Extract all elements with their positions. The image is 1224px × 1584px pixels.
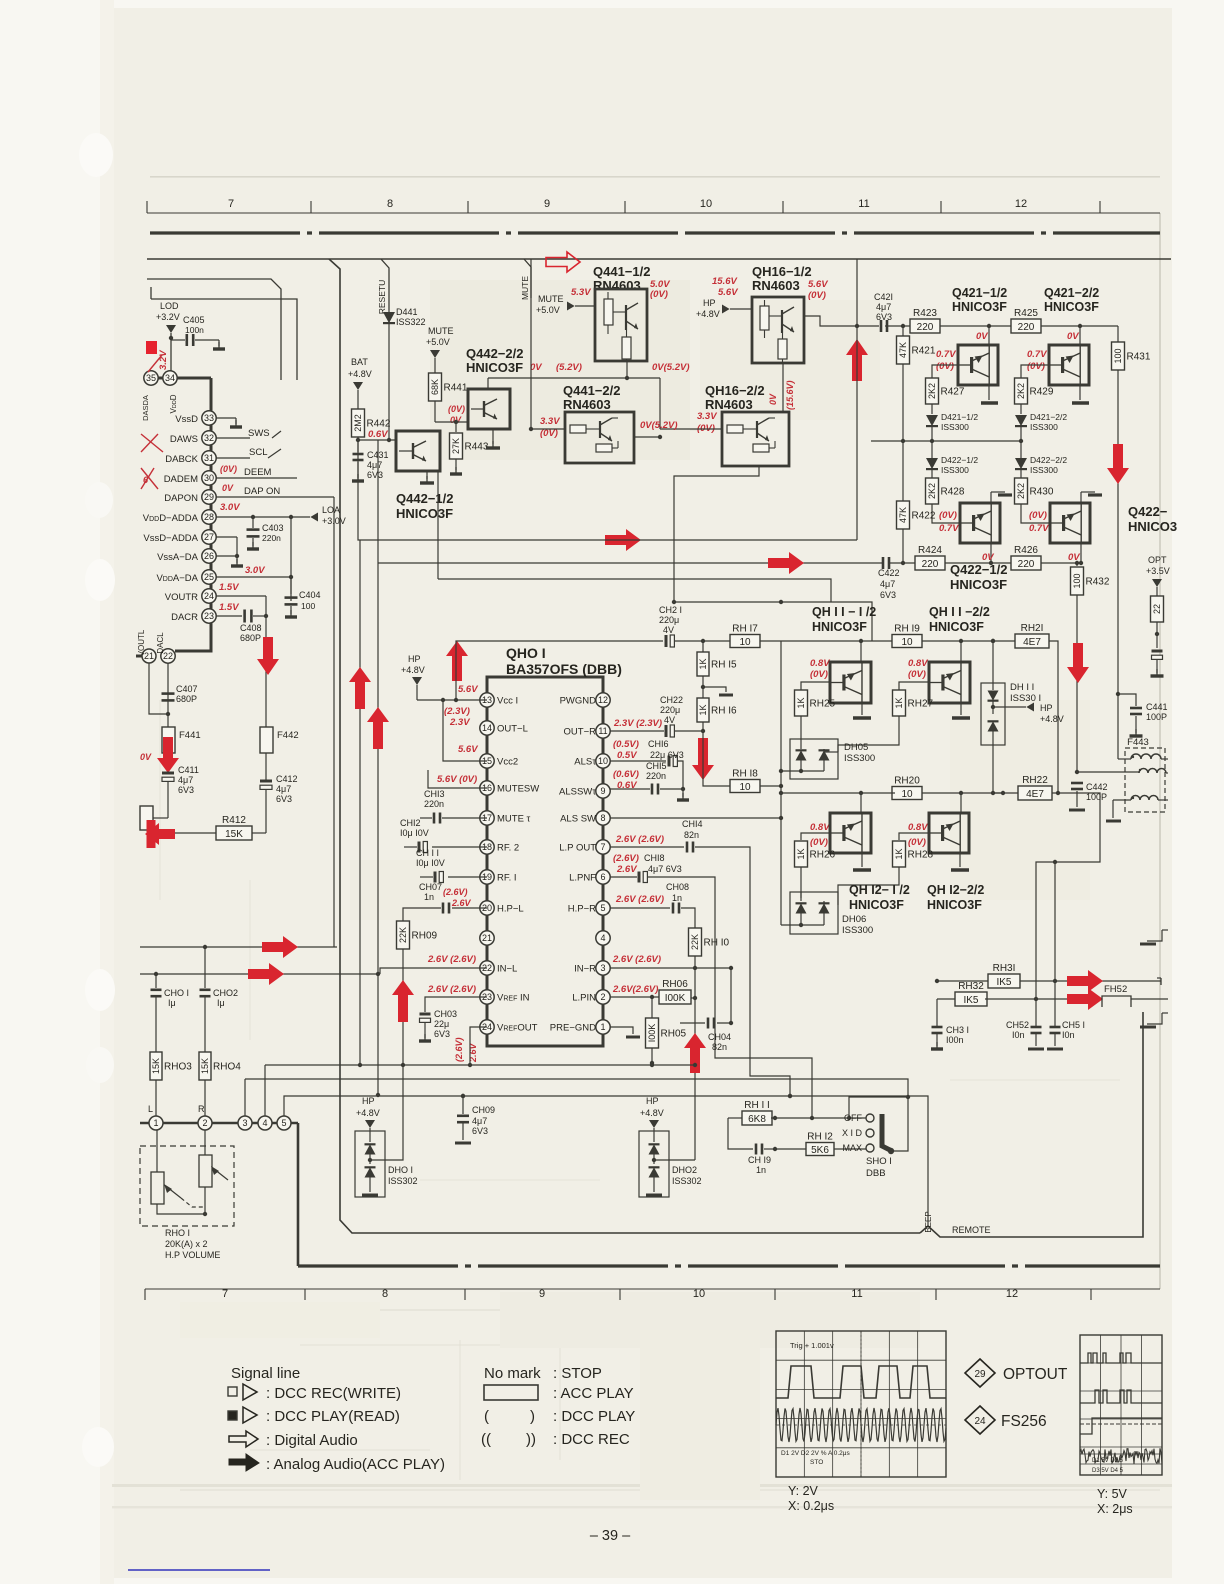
pin 27 VssD-ADDA <box>143 530 237 556</box>
wire RESETU vertical <box>381 259 389 310</box>
svg-text:IK5: IK5 <box>996 977 1011 988</box>
svg-text:+4.8V: +4.8V <box>356 1108 380 1118</box>
resistor R427 2K2 <box>926 378 965 414</box>
resistor RH06 100K <box>659 979 695 1004</box>
label Y 2V X 0.2us <box>788 1484 834 1513</box>
wire right border stub <box>1157 978 1161 985</box>
resistor R422 47K <box>897 441 936 565</box>
ground Q442-2/2 <box>486 430 500 448</box>
outline around DAC left upper <box>147 279 281 380</box>
svg-text:RH2I: RH2I <box>1021 623 1044 634</box>
legend row4 Analog Audio <box>229 1454 445 1473</box>
svg-text:I00K: I00K <box>665 993 686 1004</box>
vertical wire x360 <box>359 540 361 1065</box>
svg-text:RH25: RH25 <box>810 699 836 710</box>
capacitor C403 <box>247 517 284 549</box>
red (15.6V) rotated <box>785 380 795 410</box>
wire RH11-CH19 left <box>728 1118 753 1149</box>
svg-text:CH04: CH04 <box>708 1032 731 1042</box>
ground stub Q422-2 <box>1081 492 1102 495</box>
svg-text:CHI2: CHI2 <box>400 818 421 828</box>
punch hole bottom <box>82 1427 114 1467</box>
capacitor CH01 <box>151 974 190 1052</box>
ground stub RH15 <box>703 687 733 695</box>
svg-text:(5.2V): (5.2V) <box>556 362 582 373</box>
svg-text:VssD−ADDA: VssD−ADDA <box>143 533 198 544</box>
svg-text:220n: 220n <box>262 533 281 543</box>
wire Q442-2/2 collector line <box>488 376 629 389</box>
resistor R425 220 <box>1011 308 1041 333</box>
svg-text:15K: 15K <box>225 829 243 840</box>
transistor Q441-1/2 <box>595 289 647 361</box>
red 1.5V pin23 <box>219 602 239 613</box>
svg-text:220: 220 <box>917 322 934 333</box>
bottom dash-dot border <box>298 1264 1160 1267</box>
red arrow out R <box>1067 970 1103 992</box>
sheet right margin line <box>1159 213 1161 1289</box>
red (0V) 0.7V Q422-1 <box>939 510 959 534</box>
svg-text:RH I2: RH I2 <box>807 1132 833 1143</box>
svg-text:4: 4 <box>262 1118 267 1128</box>
transistor QH16-1/2 <box>752 297 879 363</box>
capacitor CH03 <box>419 1009 457 1041</box>
svg-text:RH28: RH28 <box>908 850 934 861</box>
svg-text:F441: F441 <box>179 730 201 741</box>
wire MUTESW stub <box>428 770 487 788</box>
svg-text:5: 5 <box>281 1118 286 1128</box>
svg-text:HNICO3F: HNICO3F <box>952 300 1007 314</box>
wire QH16-2/2 down to bus <box>674 466 759 602</box>
red 5.3V <box>571 287 591 298</box>
svg-text:RH06: RH06 <box>662 979 688 990</box>
svg-text:H.P−L: H.P−L <box>497 904 524 915</box>
svg-text:IN−R: IN−R <box>574 964 596 975</box>
svg-text:OUT−L: OUT−L <box>497 724 528 735</box>
svg-text:ISS300: ISS300 <box>1030 465 1058 475</box>
legend DCC PLAY parens <box>484 1408 635 1425</box>
svg-text:RF. I: RF. I <box>497 873 517 884</box>
svg-text:D422−1/2: D422−1/2 <box>941 455 978 465</box>
svg-text:X: 2μs: X: 2μs <box>1097 1502 1133 1516</box>
svg-text:220: 220 <box>1018 322 1035 333</box>
pin 31 DABCK <box>165 451 250 465</box>
svg-text:0.7V: 0.7V <box>939 523 959 534</box>
svg-text:(0V): (0V) <box>448 404 465 414</box>
capacitor CH14 <box>610 819 792 1098</box>
inner box corner top-right <box>329 259 340 300</box>
wire jack5 up <box>284 1096 286 1116</box>
svg-text:(0V): (0V) <box>650 289 668 300</box>
legend row3 Digital Audio <box>229 1431 358 1449</box>
red 0.7V (0V) Q421-1 <box>936 349 956 372</box>
svg-text:HNICO3F: HNICO3F <box>927 898 982 912</box>
svg-text:2K2: 2K2 <box>1016 483 1026 499</box>
svg-text:DHO I: DHO I <box>388 1165 413 1175</box>
wire DH11 down <box>991 791 995 795</box>
wire IN-L pin22 <box>380 968 487 974</box>
svg-text:0V: 0V <box>530 362 542 373</box>
svg-text:+3.2V: +3.2V <box>156 312 180 322</box>
ghost lines mid <box>160 280 1120 1180</box>
ghost texture <box>180 280 1090 1500</box>
svg-text:– 39 –: – 39 – <box>590 1528 631 1544</box>
label DH05 <box>844 742 875 764</box>
svg-text:((: (( <box>481 1431 491 1448</box>
label Q421-2/2 <box>1044 286 1099 314</box>
svg-text:OPTOUT: OPTOUT <box>1003 1366 1068 1383</box>
DAC IC thick bus pins 35-34 <box>144 377 211 380</box>
svg-text:L: L <box>148 1104 153 1114</box>
svg-text:4E7: 4E7 <box>1026 789 1044 800</box>
svg-text:ISS300: ISS300 <box>1030 422 1058 432</box>
svg-text:21: 21 <box>482 933 492 943</box>
wire ALS SW pin8 <box>610 816 783 820</box>
svg-text:22K: 22K <box>398 927 408 943</box>
ground Q442-1/2 <box>420 471 434 483</box>
schematic top border wire <box>147 258 1171 260</box>
label DASDA <box>141 395 150 421</box>
svg-text:22: 22 <box>1152 604 1162 614</box>
red up arrow x456 <box>446 641 468 681</box>
label Q422-cut <box>1128 504 1177 534</box>
svg-text:4E7: 4E7 <box>1023 637 1041 648</box>
red (0.5V) 0.5V pin10 <box>613 739 639 761</box>
svg-text:15.6V: 15.6V <box>712 276 737 287</box>
wire bottom bus y1065 <box>265 1063 697 1067</box>
red 26V (2.6V) pin22 <box>427 954 476 965</box>
svg-text:CH I9: CH I9 <box>748 1155 771 1165</box>
faint scan band bottom2 <box>112 1506 1172 1508</box>
svg-text:: DCC PLAY(READ): : DCC PLAY(READ) <box>266 1408 400 1425</box>
label MUTE +5.0V <box>426 326 454 373</box>
red up arrow RH09 <box>392 980 414 1022</box>
svg-text:2.6V: 2.6V <box>616 864 637 875</box>
svg-text:0V: 0V <box>222 483 234 493</box>
svg-text:QH I I −2/2: QH I I −2/2 <box>929 605 990 619</box>
svg-text:RH I8: RH I8 <box>732 769 758 780</box>
svg-text:DH05: DH05 <box>844 742 868 753</box>
punch hole low <box>86 1047 114 1083</box>
svg-text:(0V): (0V) <box>540 428 558 439</box>
svg-text:RH20: RH20 <box>894 776 920 787</box>
svg-text:C404: C404 <box>299 590 321 600</box>
svg-text:I0μ I0V: I0μ I0V <box>416 858 445 868</box>
transistor QH16-2/2 <box>722 412 789 466</box>
capacitor CH02 <box>200 947 239 1052</box>
wire C421 to R423 <box>885 324 911 328</box>
svg-text:0.8V: 0.8V <box>810 658 830 669</box>
svg-text:(0.6V): (0.6V) <box>613 769 639 780</box>
red up arrow x378 <box>367 707 389 749</box>
resistor R429 2K2 <box>1015 378 1054 414</box>
red 0V Q421-2 <box>1067 331 1079 342</box>
vertical x862 top <box>855 259 859 540</box>
diode D421-2/2 <box>1015 412 1067 441</box>
label Q441-1/2 <box>593 264 650 293</box>
svg-text:Q441−1/2: Q441−1/2 <box>593 264 650 279</box>
svg-text:RN4603: RN4603 <box>563 397 611 412</box>
svg-text:PWGND: PWGND <box>560 696 597 707</box>
svg-text:R412: R412 <box>222 815 246 826</box>
label MUTE vertical <box>520 276 530 300</box>
svg-text:HP: HP <box>408 654 421 664</box>
svg-text:: Analog Audio(ACC PLAY): : Analog Audio(ACC PLAY) <box>266 1456 445 1473</box>
svg-text:9: 9 <box>544 198 550 210</box>
svg-text:(0V): (0V) <box>936 361 954 372</box>
red open arrow top <box>546 252 580 272</box>
HP feed DH01 <box>356 1096 380 1137</box>
oscillogram left trig text <box>790 1341 834 1350</box>
legend DCC REC parens <box>481 1431 630 1448</box>
thick wire jack5 down <box>297 1123 300 1266</box>
ground corner right upper <box>1140 930 1168 944</box>
svg-text:1K: 1K <box>698 704 708 715</box>
resistor RH25 1K <box>795 682 836 739</box>
red 5.6V pin15 <box>458 744 478 755</box>
svg-text:3: 3 <box>242 1118 247 1128</box>
oscillogram right trace2 <box>1080 1390 1162 1403</box>
svg-text:RH I0: RH I0 <box>704 938 730 949</box>
fuse F441 <box>162 727 201 753</box>
svg-text:ALSSWτ: ALSSWτ <box>559 787 596 798</box>
label REMOTE <box>952 1225 991 1235</box>
resistor R432 100 <box>1071 563 1110 772</box>
svg-text:27K: 27K <box>451 438 461 454</box>
svg-text:CH08: CH08 <box>666 882 689 892</box>
red rotated (2.6V) 2.6V <box>454 1037 478 1063</box>
resistor R443 27K <box>450 422 489 474</box>
label Q421-1/2 <box>952 286 1007 314</box>
svg-text:Iμ: Iμ <box>217 998 225 1008</box>
wire x706 to RH18 <box>703 731 733 786</box>
red up arrow x848 <box>846 339 868 381</box>
wire Q421-1 base chain <box>932 365 958 378</box>
svg-text:5.3V: 5.3V <box>571 287 591 298</box>
svg-text:220: 220 <box>1018 559 1035 570</box>
wire jack4 up <box>264 1065 266 1116</box>
pin 35 <box>144 371 158 385</box>
svg-text:24: 24 <box>204 591 214 601</box>
red 0.8V (0V) QH12-1 <box>810 822 830 848</box>
svg-text:4μ7: 4μ7 <box>876 302 891 312</box>
svg-text:HP: HP <box>703 298 716 308</box>
svg-text:R432: R432 <box>1086 577 1110 588</box>
capacitor CH19 <box>748 1118 775 1175</box>
svg-text:H.P VOLUME: H.P VOLUME <box>165 1250 220 1260</box>
svg-text:RH I I: RH I I <box>744 1100 770 1111</box>
svg-text:14: 14 <box>482 723 492 733</box>
svg-text:(2.3V): (2.3V) <box>444 706 470 717</box>
svg-text:680P: 680P <box>176 694 197 704</box>
svg-text:11: 11 <box>851 1288 862 1300</box>
svg-text:12: 12 <box>1006 1288 1018 1300</box>
transistor Q441-2/2 <box>565 412 634 463</box>
svg-text:6V3: 6V3 <box>178 785 194 795</box>
svg-text:L.P OUT: L.P OUT <box>559 843 596 854</box>
punch hole lower-mid <box>85 969 115 1011</box>
red (2.3V) 2.3V pin14 <box>444 706 470 728</box>
label SWS <box>248 428 281 439</box>
label QH01 title <box>506 645 622 677</box>
svg-text:2.6V (2.6V): 2.6V (2.6V) <box>427 954 476 965</box>
vertical wire x378 <box>376 563 380 1097</box>
svg-text:C412: C412 <box>276 774 298 784</box>
svg-text:10: 10 <box>739 637 751 648</box>
potentiometer RH01-R <box>199 1130 228 1187</box>
pin 30 DADEM <box>164 471 297 485</box>
svg-text:1K: 1K <box>894 697 904 708</box>
svg-text:6V3: 6V3 <box>367 470 383 480</box>
svg-text:82n: 82n <box>712 1042 727 1052</box>
red (0V) 0V R441 <box>448 404 465 425</box>
svg-text:0.5V: 0.5V <box>617 750 637 761</box>
red 3.0V pin28 <box>220 502 240 513</box>
resistor RH03 15K <box>150 1052 192 1116</box>
red 1.5V pin24 <box>219 582 239 593</box>
svg-text:R429: R429 <box>1030 387 1054 398</box>
wire Q422 emitters to y563 <box>991 492 1081 503</box>
label BEEP <box>924 1211 933 1232</box>
LOD +3.2V feed <box>156 301 180 371</box>
oscillogram right noise trace <box>1080 1448 1162 1464</box>
svg-text:5.6V: 5.6V <box>718 287 738 298</box>
svg-text:Q442−1/2: Q442−1/2 <box>396 491 453 506</box>
svg-text:0V(5.2V): 0V(5.2V) <box>640 420 678 431</box>
svg-text:1: 1 <box>600 1022 605 1032</box>
svg-text:VREFOUT: VREFOUT <box>497 1023 538 1034</box>
ground PRE-GND <box>610 1027 640 1037</box>
legend row1 DCC REC <box>228 1384 401 1402</box>
wire pin21 down-right <box>149 663 168 714</box>
svg-text:RN4603: RN4603 <box>705 397 753 412</box>
red 5.6V(0V) pin16 <box>437 774 477 785</box>
ground stub Q422-1 <box>991 492 1012 495</box>
potentiometer RH01-L <box>151 1130 181 1204</box>
red 15.6V 5.6V <box>712 276 738 298</box>
capacitor CH04 <box>680 968 733 1052</box>
label QH12-2/2 <box>927 883 984 912</box>
svg-text:100n: 100n <box>185 325 204 335</box>
svg-text:VssD: VssD <box>175 414 198 425</box>
svg-text:Q441−2/2: Q441−2/2 <box>563 383 620 398</box>
svg-text:220μ: 220μ <box>659 615 679 625</box>
svg-text:SWS: SWS <box>248 428 270 439</box>
svg-text:DHO2: DHO2 <box>672 1165 697 1175</box>
oscillogram left sine trace <box>776 1408 946 1442</box>
wire R426 right <box>1041 561 1079 565</box>
red up arrow x360 <box>349 667 371 709</box>
red (2.6V) 26V pin20 <box>443 887 472 908</box>
QH01 right pins <box>550 693 610 1034</box>
svg-text:3: 3 <box>600 963 605 973</box>
svg-text:22μ 6V3: 22μ 6V3 <box>650 750 684 760</box>
svg-text:F442: F442 <box>277 730 299 741</box>
svg-text:Trig + 1.001v: Trig + 1.001v <box>790 1341 834 1350</box>
ghost lines bottom <box>180 1300 1160 1500</box>
wire DH01 tap <box>370 1065 403 1160</box>
svg-text:2.3V (2.3V): 2.3V (2.3V) <box>613 718 662 729</box>
legend Signal line <box>231 1365 300 1382</box>
svg-text:RF. 2: RF. 2 <box>497 843 519 854</box>
top dash-dot border <box>150 231 1160 234</box>
svg-text:R424: R424 <box>918 545 942 556</box>
svg-text:220: 220 <box>922 559 939 570</box>
svg-text:ISS300: ISS300 <box>844 753 875 764</box>
transistor QH12-1/2 <box>830 793 871 853</box>
wire R441-Q442-2/2 base <box>435 420 468 424</box>
svg-text:10: 10 <box>739 782 751 793</box>
svg-text:CHI3: CHI3 <box>424 789 445 799</box>
svg-text:1n: 1n <box>756 1165 766 1175</box>
svg-text:RH I5: RH I5 <box>711 660 737 671</box>
wire DACR node down <box>265 616 267 727</box>
red 3.0V pin25 <box>245 565 265 576</box>
left margin shade <box>100 0 114 1584</box>
red arrow on y947 <box>262 936 298 958</box>
svg-text:2.6V (2.6V): 2.6V (2.6V) <box>615 834 664 845</box>
svg-text:RH32: RH32 <box>958 981 984 992</box>
svg-text:HNICO3F: HNICO3F <box>812 620 867 634</box>
svg-text:2.6V(2.6V): 2.6V(2.6V) <box>612 984 658 995</box>
svg-text:CH07: CH07 <box>419 882 442 892</box>
svg-text:R427: R427 <box>941 387 965 398</box>
svg-text:0.6V: 0.6V <box>368 429 388 440</box>
svg-text:11: 11 <box>598 726 607 736</box>
svg-text:RN4603: RN4603 <box>752 278 800 293</box>
svg-text:4μ7: 4μ7 <box>472 1116 487 1126</box>
ground QH11-2/2 <box>952 703 970 718</box>
oscillogram right trace1 <box>1080 1353 1162 1363</box>
resistor RH10 22K <box>689 928 730 1160</box>
red 2.6V (2.6V) pin3 <box>612 954 661 965</box>
switch SH01 DBB <box>842 1113 894 1179</box>
bus wire y602 <box>672 600 872 641</box>
svg-text:RH09: RH09 <box>412 931 438 942</box>
svg-text:6V3: 6V3 <box>472 1126 488 1136</box>
svg-text:12: 12 <box>598 695 608 705</box>
svg-text:I00n: I00n <box>946 1035 964 1045</box>
outline around DAC left inner <box>151 299 297 380</box>
svg-text:HNICO3F: HNICO3F <box>929 620 984 634</box>
red 0V rotated <box>768 393 778 405</box>
svg-text:(0V): (0V) <box>808 290 826 301</box>
inductor F443-1 <box>1118 754 1168 759</box>
svg-text:C408: C408 <box>240 623 262 633</box>
long vertical x1055 <box>1053 979 1057 1026</box>
capacitor C408 <box>240 610 268 644</box>
long vertical x1036 <box>1034 997 1038 1001</box>
svg-text:PRE−GND: PRE−GND <box>550 1023 596 1034</box>
long vertical wire x337 <box>340 300 920 1233</box>
svg-text:2.6V (2.6V): 2.6V (2.6V) <box>612 954 661 965</box>
resistor R430 2K2 <box>1015 469 1054 523</box>
label L R <box>148 1104 205 1114</box>
transistor Q422-1/2 <box>960 503 1000 565</box>
svg-text:CH I I: CH I I <box>416 848 439 858</box>
pin 29 DAPON <box>164 490 334 504</box>
svg-text:D1 2V D2 2V % A 0: D1 2V D2 2V % A 0.2μs <box>781 1450 851 1457</box>
svg-text:ISS30 I: ISS30 I <box>1010 693 1041 704</box>
wire bottom bus y1096 <box>286 1094 928 1226</box>
svg-text:100: 100 <box>1072 573 1082 588</box>
red (0V) 0.7V Q422-2 <box>1029 510 1049 534</box>
red down arrow F441 <box>157 737 179 773</box>
jack pin 3 <box>238 1116 252 1130</box>
oscillogram right bottom text <box>1080 1454 1162 1474</box>
capacitor CH16 <box>610 739 684 789</box>
ground F443-3 <box>1106 800 1121 821</box>
svg-text:5: 5 <box>600 903 605 913</box>
